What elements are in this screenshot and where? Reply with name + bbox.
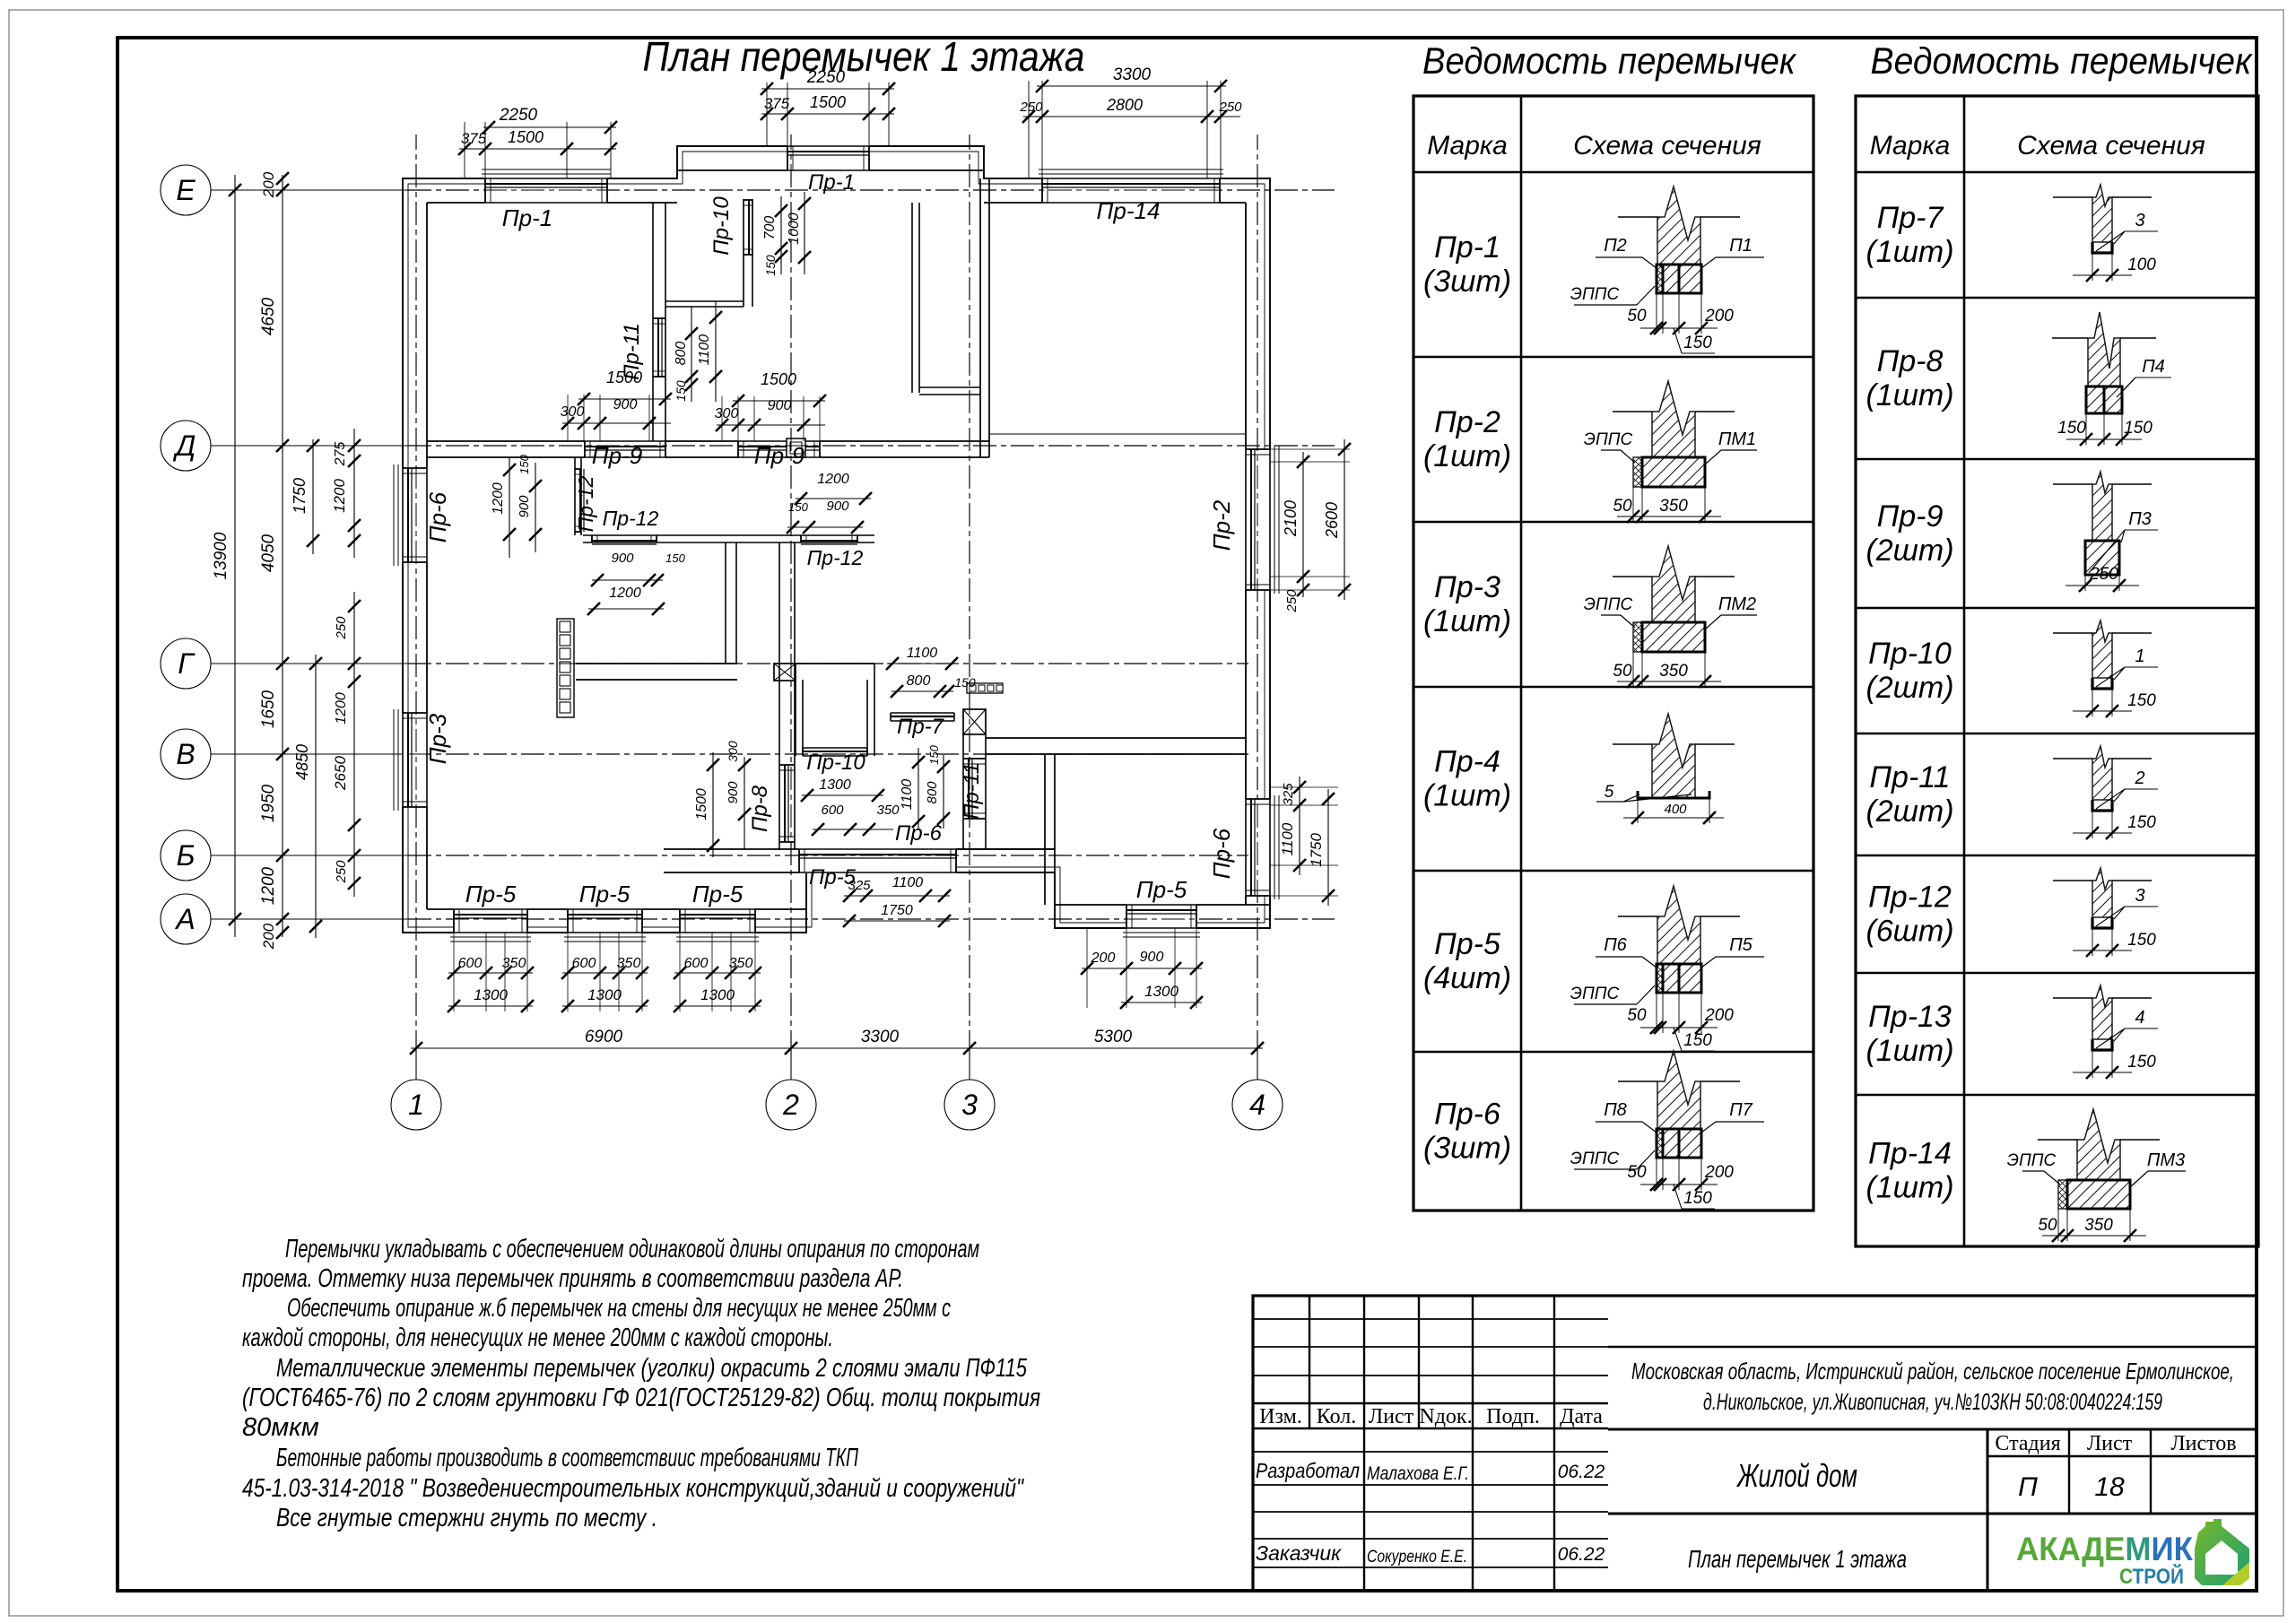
svg-text:Разработал: Разработал bbox=[1256, 1459, 1360, 1482]
svg-text:Пр-14: Пр-14 bbox=[1868, 1137, 1952, 1171]
svg-text:Жилой дом: Жилой дом bbox=[1736, 1457, 1857, 1494]
svg-text:1300: 1300 bbox=[587, 986, 622, 1003]
kitchen window dims bbox=[509, 457, 510, 558]
section diagram ЭППС/ПМ2 bbox=[1652, 546, 1695, 622]
window Пр-6 in Б wall bbox=[799, 848, 956, 873]
svg-text:250: 250 bbox=[334, 860, 349, 884]
svg-text:ЭППС: ЭППС bbox=[1570, 985, 1620, 1003]
section diagram 4 bbox=[2092, 985, 2112, 1039]
svg-text:50: 50 bbox=[1627, 1163, 1647, 1182]
svg-text:2650: 2650 bbox=[332, 756, 349, 791]
window Пр-2 right wall bbox=[1245, 449, 1271, 590]
axis circle 3 bbox=[944, 1080, 995, 1130]
inner wall faces bbox=[426, 203, 428, 909]
svg-text:150: 150 bbox=[665, 551, 685, 565]
svg-text:2250: 2250 bbox=[806, 68, 846, 87]
window Пр-14 top-right bbox=[1042, 178, 1220, 204]
axis lines redraw bbox=[408, 189, 1335, 191]
svg-text:600: 600 bbox=[458, 956, 483, 971]
svg-text:900: 900 bbox=[726, 781, 741, 804]
svg-text:150: 150 bbox=[927, 744, 941, 764]
svg-text:1: 1 bbox=[408, 1089, 424, 1121]
svg-text:(1шт): (1шт) bbox=[1865, 235, 1953, 269]
svg-text:350: 350 bbox=[502, 956, 526, 971]
svg-text:900: 900 bbox=[1140, 950, 1164, 965]
bottom window dims bbox=[453, 933, 455, 1011]
svg-text:1100: 1100 bbox=[697, 334, 712, 366]
axis circle А bbox=[161, 894, 211, 944]
axis circle 4 bbox=[1232, 1080, 1283, 1130]
svg-text:Пр-7: Пр-7 bbox=[897, 715, 945, 739]
wall x1074 down to Б bbox=[962, 734, 964, 849]
svg-text:900: 900 bbox=[768, 398, 792, 413]
section diagram 1 bbox=[2092, 621, 2112, 678]
axis 4 vertical bbox=[1257, 1054, 1258, 1080]
svg-text:1500: 1500 bbox=[694, 788, 709, 820]
svg-text:4: 4 bbox=[2135, 1008, 2144, 1028]
svg-text:Пр-2: Пр-2 bbox=[1434, 405, 1500, 439]
axis 3 vertical bbox=[969, 1054, 970, 1080]
svg-text:ПМ2: ПМ2 bbox=[1718, 595, 1756, 614]
svg-text:45-1.03-314-2018 " Возведениес: 45-1.03-314-2018 " Возведениестроительны… bbox=[242, 1474, 1024, 1503]
svg-text:1200: 1200 bbox=[334, 692, 349, 725]
window Пр-6 left wall bbox=[402, 468, 428, 562]
svg-text:ПМ1: ПМ1 bbox=[1718, 430, 1756, 449]
svg-text:1: 1 bbox=[2135, 647, 2144, 666]
svg-text:06.22: 06.22 bbox=[1558, 1462, 1605, 1482]
axis circle Г bbox=[161, 638, 211, 689]
svg-text:1200: 1200 bbox=[259, 866, 278, 905]
svg-text:Пр-1: Пр-1 bbox=[1434, 230, 1500, 265]
Пр-10 room bottom wall bbox=[665, 300, 744, 302]
svg-text:ЭППС: ЭППС bbox=[1570, 1150, 1620, 1168]
svg-text:Марка: Марка bbox=[1427, 131, 1508, 161]
svg-text:275: 275 bbox=[333, 442, 348, 467]
svg-text:(1шт): (1шт) bbox=[1423, 439, 1511, 473]
svg-text:2: 2 bbox=[2134, 768, 2144, 788]
svg-text:(1шт): (1шт) bbox=[1865, 1171, 1953, 1205]
svg-text:1300: 1300 bbox=[474, 986, 508, 1003]
svg-text:50: 50 bbox=[2038, 1216, 2057, 1235]
svg-text:П: П bbox=[2018, 1472, 2038, 1502]
section diagram Пр-14 bbox=[2077, 1109, 2120, 1180]
svg-text:2100: 2100 bbox=[1282, 500, 1300, 537]
svg-text:1500: 1500 bbox=[810, 93, 846, 111]
svg-text:(3шт): (3шт) bbox=[1423, 265, 1511, 299]
svg-text:1300: 1300 bbox=[819, 777, 851, 793]
svg-text:50: 50 bbox=[1627, 1006, 1647, 1025]
svg-text:700: 700 bbox=[762, 216, 778, 240]
svg-text:350: 350 bbox=[2084, 1216, 2113, 1235]
svg-text:П5: П5 bbox=[1729, 935, 1752, 955]
axis circle Е bbox=[161, 165, 211, 215]
axis circle 2 bbox=[766, 1080, 816, 1130]
Пр-11 top dims bbox=[691, 307, 692, 402]
svg-text:900: 900 bbox=[613, 397, 638, 412]
svg-text:3300: 3300 bbox=[861, 1028, 900, 1046]
svg-text:1200: 1200 bbox=[491, 482, 506, 515]
svg-text:Пр-8: Пр-8 bbox=[748, 785, 772, 832]
svg-text:Пр-10: Пр-10 bbox=[709, 196, 734, 256]
svg-text:Пр-7: Пр-7 bbox=[1877, 201, 1944, 235]
wall x1165 (right section) bbox=[1044, 754, 1046, 905]
axis Г horizontal bbox=[211, 663, 408, 664]
svg-text:5: 5 bbox=[1605, 783, 1614, 802]
svg-text:Пр-6: Пр-6 bbox=[1208, 828, 1235, 879]
svg-text:(4шт): (4шт) bbox=[1423, 961, 1511, 995]
svg-text:150: 150 bbox=[517, 454, 531, 473]
svg-text:АКАДЕМИК: АКАДЕМИК bbox=[2016, 1531, 2193, 1567]
svg-text:(2шт): (2шт) bbox=[1865, 794, 1953, 829]
svg-text:350: 350 bbox=[1659, 497, 1688, 516]
svg-text:250: 250 bbox=[1284, 589, 1300, 613]
svg-text:3: 3 bbox=[961, 1089, 978, 1121]
svg-text:Обеспечить опирание ж.б перемы: Обеспечить опирание ж.б перемычек на сте… bbox=[287, 1294, 951, 1323]
svg-text:(6шт): (6шт) bbox=[1865, 915, 1953, 949]
svg-text:5300: 5300 bbox=[1094, 1028, 1133, 1046]
svg-text:Пр-10: Пр-10 bbox=[1868, 637, 1952, 671]
axis circle Д bbox=[161, 421, 211, 471]
svg-text:(3шт): (3шт) bbox=[1423, 1132, 1511, 1166]
svg-text:Изм.: Изм. bbox=[1259, 1405, 1302, 1428]
svg-text:3: 3 bbox=[2135, 211, 2144, 230]
svg-text:200: 200 bbox=[1091, 950, 1116, 966]
svg-text:150: 150 bbox=[1683, 334, 1712, 352]
secondary left chains bbox=[312, 439, 314, 554]
svg-text:П3: П3 bbox=[2128, 509, 2152, 529]
svg-text:1650: 1650 bbox=[259, 690, 278, 728]
svg-text:Пр-6: Пр-6 bbox=[1434, 1098, 1500, 1132]
exterior walls outline bbox=[403, 146, 1270, 933]
svg-text:Д: Д bbox=[173, 430, 196, 462]
left dimension chains bbox=[234, 175, 236, 937]
svg-text:План перемычек 1 этажа: План перемычек 1 этажа bbox=[1688, 1545, 1907, 1573]
svg-text:1000: 1000 bbox=[787, 213, 802, 245]
svg-text:(2шт): (2шт) bbox=[1865, 671, 1953, 705]
svg-text:4650: 4650 bbox=[259, 297, 278, 335]
svg-text:Схема сечения: Схема сечения bbox=[1573, 131, 1761, 161]
dims top-middle window bbox=[766, 82, 768, 146]
windows Пр-5 bottom-left wall bbox=[454, 908, 527, 933]
svg-text:Пр-4: Пр-4 bbox=[1434, 745, 1500, 779]
bath cluster dims bbox=[887, 663, 957, 664]
svg-text:ЭППС: ЭППС bbox=[1584, 595, 1633, 614]
svg-text:50: 50 bbox=[1613, 662, 1632, 681]
svg-text:80мкм: 80мкм bbox=[242, 1413, 319, 1442]
Пр-10 room (bath) walls bbox=[795, 680, 796, 756]
svg-text:150: 150 bbox=[2057, 419, 2086, 438]
svg-text:Московская область, Истринский: Московская область, Истринский район, се… bbox=[1631, 1358, 2234, 1384]
svg-text:(1шт): (1шт) bbox=[1423, 604, 1511, 638]
svg-text:проема. Отметку низа перемычек: проема. Отметку низа перемычек принять в… bbox=[242, 1264, 903, 1293]
svg-text:800: 800 bbox=[674, 342, 689, 366]
svg-text:В: В bbox=[176, 738, 195, 770]
svg-text:Пр-5: Пр-5 bbox=[579, 881, 631, 907]
svg-text:П1: П1 bbox=[1729, 236, 1752, 256]
svg-text:13900: 13900 bbox=[212, 532, 230, 579]
svg-text:325: 325 bbox=[848, 878, 871, 893]
svg-text:2250: 2250 bbox=[499, 106, 538, 125]
svg-text:350: 350 bbox=[1659, 662, 1688, 681]
closet dims bbox=[796, 498, 871, 499]
svg-text:Малахова Е.Г.: Малахова Е.Г. bbox=[1367, 1463, 1469, 1484]
svg-text:50: 50 bbox=[1627, 307, 1647, 325]
svg-text:150: 150 bbox=[2127, 931, 2156, 950]
svg-text:200: 200 bbox=[1704, 307, 1734, 325]
svg-text:Е: Е bbox=[176, 174, 196, 206]
right-side dims lower (Пр-6) bbox=[1270, 786, 1338, 788]
svg-text:Стадия: Стадия bbox=[1995, 1432, 2060, 1455]
logo house icon bbox=[2195, 1519, 2249, 1585]
axis Д horizontal bbox=[211, 445, 408, 447]
wall along В axis (right part) bbox=[986, 737, 1247, 739]
Пр-10 room top: right wall x829 bbox=[743, 199, 744, 307]
bottom axis dims bbox=[415, 1048, 417, 1076]
svg-text:350: 350 bbox=[729, 956, 753, 971]
lintel bar Пр-10 (bath door) bbox=[803, 747, 867, 749]
svg-text:ЭППС: ЭППС bbox=[2007, 1151, 2057, 1170]
svg-text:Пр-8: Пр-8 bbox=[1877, 344, 1944, 378]
section diagram Пр-8 bbox=[2088, 312, 2120, 386]
svg-text:Ведомость перемычек: Ведомость перемычек bbox=[1871, 39, 2254, 82]
window Пр-1 top-middle bbox=[787, 145, 869, 171]
svg-text:200: 200 bbox=[1704, 1006, 1734, 1025]
svg-text:250: 250 bbox=[1218, 100, 1242, 115]
wall along Д axis bbox=[427, 440, 989, 442]
kitchen partition x641 below Д bbox=[574, 457, 576, 535]
svg-text:2800: 2800 bbox=[1106, 96, 1143, 114]
svg-text:Бетонные работы производить в: Бетонные работы производить в соответств… bbox=[276, 1444, 859, 1472]
svg-text:(ГОСТ6465-76) по 2 слоям грунт: (ГОСТ6465-76) по 2 слоям грунтовки ГФ 02… bbox=[242, 1384, 1040, 1412]
lintel bar Пр-7 bbox=[891, 712, 954, 714]
vent block 7sq bbox=[557, 619, 574, 717]
axis circle Б bbox=[161, 830, 211, 881]
svg-text:6900: 6900 bbox=[585, 1028, 623, 1046]
axis 2 vertical bbox=[790, 1054, 792, 1080]
svg-text:Пр-5: Пр-5 bbox=[1136, 876, 1187, 903]
svg-text:Б: Б bbox=[177, 839, 196, 872]
window Пр-6 right wall bbox=[1245, 799, 1271, 896]
svg-text:Пр-11: Пр-11 bbox=[1869, 760, 1950, 794]
svg-text:П4: П4 bbox=[2142, 357, 2165, 377]
section diagram Пр-4 bbox=[1652, 714, 1695, 798]
svg-text:Марка: Марка bbox=[1870, 131, 1951, 161]
closet bottom wall y432 bbox=[919, 386, 980, 388]
svg-text:50: 50 bbox=[1613, 497, 1632, 516]
axis Б horizontal bbox=[211, 855, 408, 856]
svg-text:Пр-5: Пр-5 bbox=[465, 881, 517, 907]
svg-text:1750: 1750 bbox=[291, 478, 309, 514]
svg-text:П2: П2 bbox=[1604, 236, 1627, 256]
opening Пр-9 left in Д wall bbox=[585, 440, 665, 458]
svg-text:(1шт): (1шт) bbox=[1865, 1034, 1953, 1068]
svg-text:1500: 1500 bbox=[508, 128, 544, 146]
svg-text:Пр-11: Пр-11 bbox=[960, 762, 984, 820]
svg-text:Заказчик: Заказчик bbox=[1256, 1541, 1342, 1565]
svg-text:300: 300 bbox=[715, 406, 739, 421]
svg-text:06.22: 06.22 bbox=[1558, 1544, 1605, 1565]
opening Пр-9 right in Д wall bbox=[738, 440, 820, 458]
section diagram П3 bbox=[2092, 472, 2112, 541]
bottom-right window dims bbox=[1086, 928, 1088, 1008]
Пр-10 top dims bbox=[780, 196, 782, 274]
svg-text:1500: 1500 bbox=[761, 370, 796, 388]
svg-text:900: 900 bbox=[611, 551, 634, 566]
svg-text:Пр-12: Пр-12 bbox=[574, 475, 597, 532]
section diagram 2 bbox=[2092, 746, 2112, 800]
svg-text:150: 150 bbox=[2127, 1053, 2156, 1072]
svg-text:1500: 1500 bbox=[606, 369, 642, 386]
svg-text:(1шт): (1шт) bbox=[1423, 779, 1511, 813]
axis 1 vertical bbox=[415, 1054, 417, 1080]
svg-text:325: 325 bbox=[1281, 783, 1296, 806]
svg-text:Пр-13: Пр-13 bbox=[1868, 1000, 1952, 1034]
svg-text:350: 350 bbox=[876, 803, 900, 818]
svg-text:А: А bbox=[174, 903, 195, 935]
column at Г wall end bbox=[774, 664, 796, 681]
svg-text:Листов: Листов bbox=[2170, 1432, 2236, 1455]
svg-text:1300: 1300 bbox=[700, 986, 735, 1003]
svg-text:Ведомость перемычек: Ведомость перемычек bbox=[1422, 39, 1797, 82]
section diagram ЭППС/ПМ1 bbox=[1652, 381, 1695, 457]
svg-text:200: 200 bbox=[260, 923, 277, 950]
partition x728 top (Пр-11) bbox=[652, 203, 654, 441]
section diagram П8/П7 bbox=[1657, 1051, 1700, 1129]
svg-text:1950: 1950 bbox=[259, 784, 278, 822]
axis А horizontal bbox=[211, 918, 408, 920]
svg-text:Пр-2: Пр-2 bbox=[1208, 499, 1235, 551]
svg-text:4850: 4850 bbox=[293, 744, 311, 780]
svg-text:800: 800 bbox=[925, 781, 940, 804]
svg-text:1200: 1200 bbox=[817, 472, 849, 487]
svg-text:600: 600 bbox=[684, 956, 709, 971]
svg-text:Сокуренко Е.Е.: Сокуренко Е.Е. bbox=[1367, 1548, 1467, 1567]
svg-text:Лист: Лист bbox=[2087, 1432, 2133, 1455]
svg-text:18: 18 bbox=[2094, 1472, 2125, 1502]
svg-text:Пр-12: Пр-12 bbox=[807, 546, 864, 569]
partition x809 bbox=[725, 542, 726, 664]
svg-text:П7: П7 bbox=[1729, 1100, 1752, 1120]
svg-text:Подп.: Подп. bbox=[1486, 1405, 1540, 1428]
svg-text:150: 150 bbox=[954, 675, 976, 690]
svg-text:150: 150 bbox=[2127, 691, 2156, 710]
svg-text:100: 100 bbox=[2127, 256, 2156, 274]
svg-text:1100: 1100 bbox=[892, 875, 924, 890]
svg-text:Перемычки укладывать с обеспеч: Перемычки укладывать с обеспечением один… bbox=[285, 1235, 979, 1263]
svg-text:150: 150 bbox=[2124, 419, 2152, 438]
svg-text:(2шт): (2шт) bbox=[1865, 534, 1953, 568]
axis Е horizontal bbox=[211, 189, 408, 191]
svg-text:Пр-9: Пр-9 bbox=[1877, 499, 1944, 534]
svg-text:300: 300 bbox=[726, 741, 740, 762]
svg-text:150: 150 bbox=[674, 380, 688, 402]
svg-text:Схема сечения: Схема сечения bbox=[2017, 131, 2205, 161]
svg-text:3: 3 bbox=[2135, 886, 2144, 906]
svg-text:(1шт): (1шт) bbox=[1865, 378, 1953, 412]
svg-text:каждой стороны, для ненесущих: каждой стороны, для ненесущих не менее 2… bbox=[242, 1324, 833, 1352]
svg-text:4050: 4050 bbox=[259, 534, 278, 572]
svg-text:350: 350 bbox=[617, 956, 641, 971]
svg-text:2600: 2600 bbox=[1323, 502, 1341, 539]
Д wall opening dims bbox=[567, 395, 569, 441]
section diagram П6/П5 bbox=[1657, 886, 1700, 964]
svg-text:План перемычек 1 этажа: План перемычек 1 этажа bbox=[643, 33, 1085, 80]
closet wall y597 bbox=[583, 534, 874, 536]
svg-text:ЭППС: ЭППС bbox=[1570, 285, 1620, 304]
column x1074 with X bbox=[963, 709, 986, 734]
svg-text:П6: П6 bbox=[1604, 935, 1627, 955]
svg-text:4: 4 bbox=[1249, 1089, 1265, 1121]
svg-text:1100: 1100 bbox=[907, 646, 938, 661]
svg-text:Пр-3: Пр-3 bbox=[424, 713, 451, 764]
svg-text:П8: П8 bbox=[1604, 1100, 1627, 1120]
svg-text:Дата: Дата bbox=[1560, 1405, 1603, 1428]
svg-text:1300: 1300 bbox=[1144, 983, 1178, 1000]
partition x1017 top closet bbox=[911, 203, 913, 393]
svg-text:200: 200 bbox=[260, 171, 277, 198]
svg-text:д.Никольское, ул.Живописная, у: д.Никольское, ул.Живописная, уч.№10ЗКН 5… bbox=[1703, 1388, 2162, 1415]
svg-text:Пр-14: Пр-14 bbox=[1097, 197, 1161, 224]
svg-text:Кол.: Кол. bbox=[1317, 1405, 1356, 1428]
dims top-right window bbox=[1028, 81, 1030, 178]
section diagram 3 bbox=[2092, 868, 2112, 917]
partition x1093 (mid/right rooms) bbox=[979, 178, 981, 457]
svg-text:Nдок.: Nдок. bbox=[1419, 1405, 1472, 1428]
svg-text:1100: 1100 bbox=[900, 779, 915, 811]
dims top-left window bbox=[464, 122, 465, 178]
svg-text:Пр-12: Пр-12 bbox=[603, 507, 659, 530]
svg-text:900: 900 bbox=[517, 495, 532, 518]
svg-text:375: 375 bbox=[461, 130, 487, 147]
svg-text:250: 250 bbox=[2089, 565, 2118, 584]
svg-text:150: 150 bbox=[1683, 1031, 1712, 1050]
svg-text:Г: Г bbox=[178, 647, 196, 680]
wall along Г axis bbox=[576, 663, 737, 664]
svg-text:200: 200 bbox=[1704, 1163, 1734, 1182]
svg-text:150: 150 bbox=[2127, 813, 2156, 832]
svg-text:150: 150 bbox=[763, 255, 778, 276]
svg-text:375: 375 bbox=[764, 95, 790, 112]
svg-text:2: 2 bbox=[782, 1089, 799, 1121]
vent block small horizontal bbox=[967, 683, 1003, 693]
middle notch dims bbox=[844, 895, 950, 897]
svg-text:Пр-3: Пр-3 bbox=[1434, 570, 1500, 604]
section diagram П2/П1 bbox=[1657, 187, 1700, 265]
right-side dims upper (Пр-2) bbox=[1270, 448, 1350, 450]
right room bottom line bbox=[989, 433, 1246, 435]
svg-text:400: 400 bbox=[1664, 802, 1687, 817]
axis В horizontal bbox=[211, 753, 408, 755]
axis circle В bbox=[161, 729, 211, 779]
axis circle 1 bbox=[391, 1080, 441, 1130]
svg-text:250: 250 bbox=[1019, 100, 1043, 115]
svg-text:1200: 1200 bbox=[609, 586, 641, 601]
svg-text:ПМ3: ПМ3 bbox=[2147, 1150, 2185, 1170]
svg-text:Пр-5: Пр-5 bbox=[1434, 927, 1500, 961]
svg-text:Пр-12: Пр-12 bbox=[1868, 881, 1952, 915]
wall x869 (bath left) bbox=[778, 542, 780, 849]
svg-text:300: 300 bbox=[561, 404, 585, 420]
mid Пр-6 window dims bbox=[802, 794, 883, 796]
window Пр-3 left wall bbox=[402, 713, 428, 807]
svg-text:150: 150 bbox=[1683, 1189, 1712, 1208]
svg-text:Пр-5: Пр-5 bbox=[692, 881, 744, 907]
svg-text:1750: 1750 bbox=[881, 903, 913, 918]
svg-text:3300: 3300 bbox=[1113, 65, 1152, 84]
svg-text:250: 250 bbox=[334, 616, 349, 640]
svg-text:Пр-1: Пр-1 bbox=[502, 204, 552, 231]
svg-text:ЭППС: ЭППС bbox=[1584, 430, 1633, 449]
